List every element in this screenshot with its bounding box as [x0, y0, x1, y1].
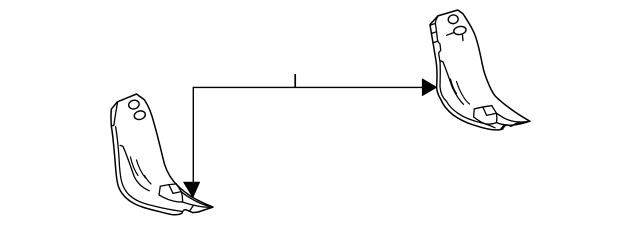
right bracket foot band right lower edge [496, 113, 498, 122]
left bracket heel junction line [190, 205, 194, 211]
right bracket foot band crease [483, 107, 487, 115]
left bracket foot band mid line [173, 192, 181, 194]
right bracket beak inner lower line [497, 122, 528, 125]
left bracket inner flange [116, 127, 182, 212]
right bracket ladder rung 3 [433, 41, 438, 43]
left bracket beak inner upper line [181, 192, 211, 207]
left bracket foot band right lower edge [181, 192, 182, 202]
right bracket part outline [430, 10, 530, 130]
left bracket part outline [111, 94, 213, 215]
left bracket foot band crease [169, 185, 173, 194]
left bracket beak inner lower line [183, 202, 212, 207]
left bracket foot band left edge [159, 186, 160, 195]
right bracket inner flange zigzag and bottom [438, 41, 495, 128]
right bracket slot ellipse [453, 25, 467, 35]
right bracket ladder rung 1 [430, 23, 435, 25]
right bracket foot band top edge [474, 106, 492, 109]
right bracket slot left tick [447, 33, 454, 36]
right bracket beak inner upper line [497, 113, 529, 122]
right bracket heel junction line [501, 125, 504, 128]
label 1 tick [294, 74, 296, 87]
right bracket foot band left edge [473, 109, 476, 117]
left bracket facet tick [111, 124, 114, 126]
arrowhead down pointing at left part [184, 182, 200, 197]
right bracket foot band right upper edge [492, 106, 497, 114]
left bracket foot band top edge [160, 184, 176, 186]
right bracket foot band bottom edge [474, 117, 497, 124]
right bracket facet inner edge [435, 16, 438, 41]
right bracket slot tail [462, 35, 465, 40]
right bracket ladder rung 2 [432, 32, 437, 34]
callout leader line [193, 87, 423, 183]
left bracket fold line with step [120, 145, 149, 190]
left bracket hatch marks [131, 157, 139, 176]
left bracket hole upper [128, 99, 140, 110]
right bracket hatch marks [451, 79, 457, 94]
left bracket facet inner edge [114, 103, 118, 126]
right bracket fold line with step [440, 61, 463, 105]
arrowhead right pointing at right part [422, 79, 436, 96]
right bracket foot band mid line [487, 113, 497, 115]
left bracket foot band right upper edge [176, 184, 181, 192]
right bracket hole upper [448, 14, 459, 24]
left bracket hole lower [133, 110, 146, 121]
left bracket foot band bottom edge [159, 195, 183, 202]
